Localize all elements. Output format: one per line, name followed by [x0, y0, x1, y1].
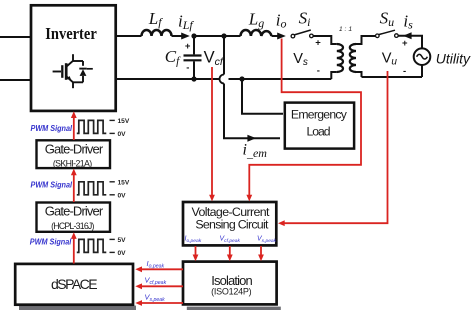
svg-text:Vu: Vu: [382, 51, 398, 68]
svg-text:1 : 1: 1 : 1: [339, 26, 352, 33]
svg-text:-: -: [403, 66, 406, 77]
svg-text:is: is: [403, 11, 413, 31]
svg-text:+: +: [402, 38, 408, 49]
svg-text:0V: 0V: [118, 131, 127, 138]
svg-text:Cf: Cf: [165, 47, 181, 67]
svg-text:Emergency: Emergency: [291, 108, 348, 122]
svg-text:PWM Signal: PWM Signal: [30, 237, 72, 247]
svg-text:dSPACE: dSPACE: [51, 276, 98, 292]
svg-text:0V: 0V: [118, 250, 127, 257]
svg-text:-: -: [317, 66, 320, 77]
svg-text:Inverter: Inverter: [45, 24, 97, 43]
svg-text:i_em: i_em: [243, 142, 268, 161]
svg-text:Gate-Driver: Gate-Driver: [45, 204, 104, 219]
svg-text:15V: 15V: [118, 118, 130, 125]
svg-text:Si: Si: [299, 9, 311, 29]
svg-text:+: +: [185, 41, 191, 52]
svg-text:iLf: iLf: [178, 12, 194, 32]
svg-text:Load: Load: [307, 125, 331, 139]
svg-text:Su: Su: [380, 9, 395, 29]
svg-text:(ISO124P): (ISO124P): [211, 286, 252, 296]
svg-text:15V: 15V: [118, 179, 130, 186]
svg-text:Vs,peak: Vs,peak: [145, 292, 166, 303]
svg-text:-: -: [186, 62, 189, 73]
svg-text:io: io: [276, 10, 287, 30]
svg-text:(SKHI-21A): (SKHI-21A): [53, 158, 92, 168]
svg-text:PWM Signal: PWM Signal: [31, 180, 73, 190]
svg-text:Gate-Driver: Gate-Driver: [45, 142, 104, 157]
svg-text:Lg: Lg: [248, 10, 264, 30]
svg-text:Vcf,peak: Vcf,peak: [145, 276, 167, 287]
svg-text:Vs: Vs: [293, 51, 308, 68]
svg-text:Sensing Circuit: Sensing Circuit: [195, 217, 269, 231]
svg-text:Vcf: Vcf: [204, 49, 224, 68]
svg-text:5V: 5V: [118, 237, 127, 244]
svg-text:PWM Signal: PWM Signal: [31, 123, 73, 133]
svg-text:+: +: [315, 38, 321, 49]
svg-text:0V: 0V: [118, 192, 127, 199]
svg-text:(HCPL-316J): (HCPL-316J): [51, 221, 94, 231]
svg-text:Lf: Lf: [148, 9, 163, 29]
svg-text:Utility: Utility: [436, 51, 471, 67]
svg-text:Io,peak: Io,peak: [147, 259, 165, 270]
